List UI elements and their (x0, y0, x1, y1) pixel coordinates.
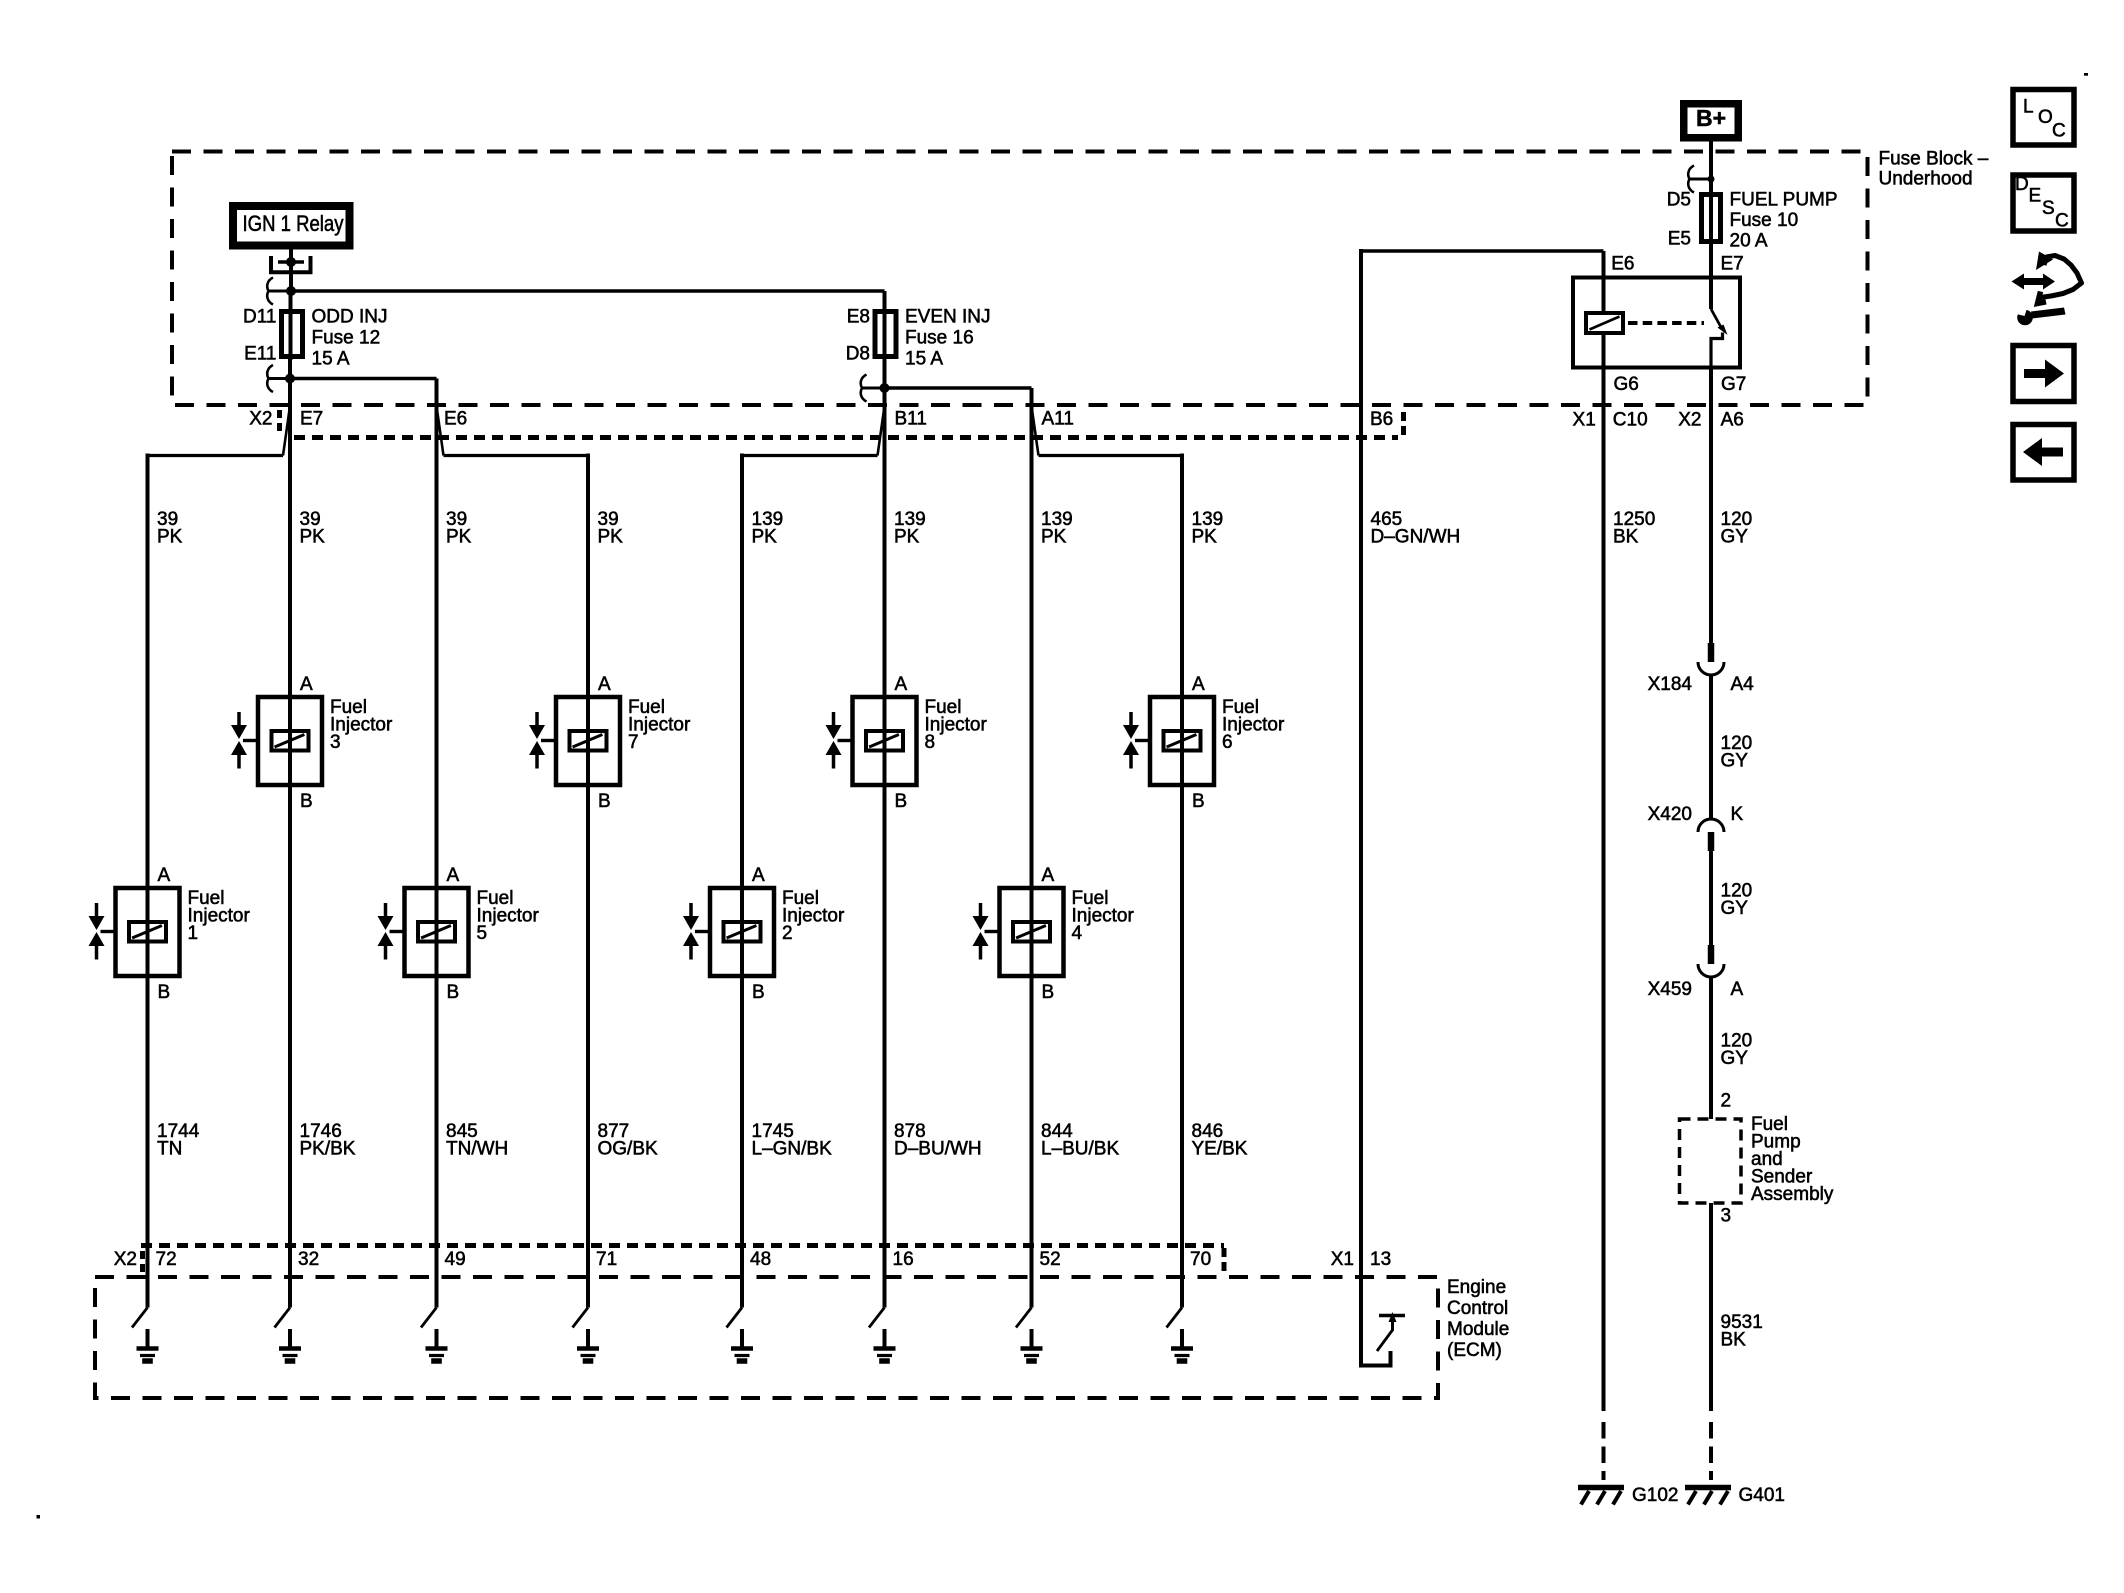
svg-text:X1: X1 (1573, 410, 1596, 431)
back arrow icon (2013, 425, 2074, 481)
svg-text:G102: G102 (1632, 1485, 1678, 1506)
connector repair wrench icon (2012, 252, 2082, 326)
fuel injector 8 (826, 674, 988, 812)
svg-text:Underhood: Underhood (1879, 169, 1973, 190)
svg-text:E6: E6 (1611, 254, 1634, 275)
inline connector X459 A (1698, 945, 1724, 977)
svg-text:5: 5 (477, 923, 488, 944)
svg-text:70: 70 (1190, 1249, 1211, 1270)
wire relay G6 to ground (1250 BK) (1602, 368, 1606, 1412)
wire fuse E11 to junction (288, 359, 292, 379)
svg-text:A: A (1731, 979, 1744, 1000)
wire junction to EVEN INJ fuse (bus) (289, 289, 885, 292)
svg-text:B: B (752, 982, 765, 1003)
fuel injector 1 (89, 865, 251, 1003)
wire fuse D8 to junction (883, 359, 887, 388)
svg-text:FUEL PUMP: FUEL PUMP (1730, 190, 1838, 211)
svg-text:E7: E7 (300, 409, 323, 430)
svg-text:TN: TN (157, 1139, 182, 1160)
svg-text:A: A (447, 865, 460, 886)
fuel injector 6 (1123, 674, 1285, 812)
svg-text:C10: C10 (1613, 410, 1648, 431)
svg-text:GY: GY (1721, 898, 1749, 919)
wire 39 PK injector 5 column (435, 379, 439, 1308)
svg-text:Fuse 16: Fuse 16 (905, 328, 974, 349)
wire 39 PK injector 7 column (586, 454, 590, 1308)
ECM ground driver pin 52 (1016, 1308, 1043, 1362)
fuse ODD INJ Fuse 12 (282, 312, 303, 357)
svg-text:PK: PK (894, 527, 920, 548)
svg-text:6: 6 (1222, 732, 1233, 753)
svg-text:E5: E5 (1668, 229, 1691, 250)
ECM ground driver pin 70 (1167, 1308, 1194, 1362)
svg-text:G6: G6 (1614, 374, 1639, 395)
svg-text:PK: PK (1192, 527, 1218, 548)
svg-text:BK: BK (1721, 1330, 1747, 1351)
svg-text:3: 3 (1721, 1206, 1732, 1227)
svg-text:X184: X184 (1648, 674, 1693, 695)
fuel pump relay box (1573, 278, 1740, 368)
svg-text:A6: A6 (1721, 410, 1744, 431)
wire 139 PK injector 4 column (1030, 388, 1034, 1308)
svg-text:B: B (895, 791, 908, 812)
svg-text:A: A (158, 865, 171, 886)
wire relay G7 to X184 (120 GY) (1709, 368, 1713, 644)
wire 39 PK injector 3 column (288, 379, 292, 1308)
fuse cavity terminal D5 (1690, 178, 1711, 181)
wire E11 junction to E6 branch (290, 377, 437, 380)
relay actuation dashed link (1628, 321, 1704, 325)
svg-text:X2: X2 (249, 409, 272, 430)
fuel injector 5 (378, 865, 540, 1003)
wire 39 PK injector 1 column (146, 454, 150, 1308)
svg-text:16: 16 (893, 1249, 914, 1270)
svg-text:20 A: 20 A (1730, 231, 1768, 252)
svg-text:E11: E11 (244, 344, 276, 365)
wire 465 D-GN/WH ECM 13 column (1359, 249, 1363, 1368)
svg-text:C: C (2055, 211, 2069, 232)
svg-text:PK: PK (157, 527, 183, 548)
svg-text:A: A (598, 674, 611, 695)
svg-text:GY: GY (1721, 1048, 1749, 1069)
svg-text:PK: PK (752, 527, 778, 548)
wire X420 to X459 (1709, 849, 1713, 945)
stray mark top right (2084, 73, 2088, 76)
pin tail E6 (437, 406, 444, 456)
pin tail B11 (878, 406, 885, 456)
svg-text:B+: B+ (1696, 105, 1726, 131)
svg-text:Assembly: Assembly (1751, 1184, 1834, 1205)
pin tail E7 (283, 406, 290, 456)
wire branch to injector 2 column (742, 454, 878, 457)
junction node ODD INJ feed (286, 286, 296, 296)
fuel injector 2 (683, 865, 845, 1003)
ECM ground driver pin 72 (132, 1308, 159, 1362)
svg-text:BK: BK (1613, 527, 1639, 548)
svg-text:GY: GY (1721, 751, 1749, 772)
svg-text:YE/BK: YE/BK (1192, 1139, 1248, 1160)
svg-text:G401: G401 (1739, 1485, 1785, 1506)
ECM ground driver pin 16 (869, 1308, 896, 1362)
fuel pump and sender assembly dashed box (1680, 1119, 1742, 1203)
wire branch to injector 6 column (1039, 454, 1183, 457)
wire fuel pump to ground (9531 BK) (1709, 1203, 1713, 1411)
svg-text:IGN 1 Relay: IGN 1 Relay (243, 211, 344, 236)
svg-text:D: D (2015, 174, 2029, 195)
svg-text:L–GN/BK: L–GN/BK (752, 1139, 833, 1160)
svg-text:B: B (598, 791, 611, 812)
svg-text:B: B (158, 982, 171, 1003)
svg-text:O: O (2038, 107, 2053, 128)
svg-text:2: 2 (1721, 1091, 1732, 1112)
IGN 1 Relay box (233, 206, 350, 246)
wire 139 PK injector 6 column (1180, 454, 1184, 1308)
engine control module dashed box (95, 1277, 1438, 1398)
ECM ground driver pin 48 (727, 1308, 754, 1362)
ground G401 (1685, 1488, 1731, 1505)
svg-text:Fuse 10: Fuse 10 (1730, 210, 1799, 231)
svg-text:B: B (1042, 982, 1055, 1003)
svg-text:Engine: Engine (1447, 1277, 1506, 1298)
wire ECM 13 to relay coil (465 riser top) (1361, 249, 1604, 252)
svg-text:L: L (2023, 97, 2034, 118)
junction node D8 (880, 383, 890, 393)
IGN 1 relay receptacle terminal (271, 256, 311, 272)
svg-text:A: A (1042, 865, 1055, 886)
wire branch to injector 7 column (444, 454, 589, 457)
wire D8 junction to A11 branch (885, 386, 1032, 389)
ECM connector X2 tick (140, 1251, 145, 1274)
svg-text:EVEN INJ: EVEN INJ (905, 307, 991, 328)
svg-text:X2: X2 (114, 1249, 137, 1270)
svg-text:PK: PK (598, 527, 624, 548)
svg-text:2: 2 (782, 923, 793, 944)
ECM ground driver pin 49 (421, 1308, 448, 1362)
svg-text:32: 32 (298, 1249, 319, 1270)
svg-text:A4: A4 (1731, 674, 1755, 695)
svg-text:K: K (1731, 804, 1744, 825)
svg-text:Module: Module (1447, 1319, 1509, 1340)
fuse cavity bracket D8 (862, 387, 885, 390)
svg-text:B6: B6 (1370, 409, 1393, 430)
inline connector X184 A4 (1698, 643, 1724, 675)
svg-text:13: 13 (1370, 1249, 1391, 1270)
svg-text:A: A (895, 674, 908, 695)
svg-text:B: B (447, 982, 460, 1003)
svg-text:A11: A11 (1042, 409, 1074, 430)
svg-text:D8: D8 (846, 344, 870, 365)
wire fuse E5 to relay E7 (1709, 244, 1713, 278)
svg-text:E: E (2029, 186, 2042, 207)
relay coil (1602, 278, 1606, 314)
svg-text:49: 49 (445, 1249, 466, 1270)
ECM driver pin 13 (1361, 1312, 1405, 1366)
svg-text:PK: PK (1041, 527, 1067, 548)
svg-text:B: B (1192, 791, 1205, 812)
svg-text:D–BU/WH: D–BU/WH (894, 1139, 982, 1160)
svg-text:TN/WH: TN/WH (446, 1139, 508, 1160)
fuse EVEN INJ Fuse 16 (883, 291, 887, 360)
stray mark bottom left (37, 1515, 41, 1519)
svg-text:52: 52 (1040, 1249, 1061, 1270)
svg-text:(ECM): (ECM) (1447, 1340, 1502, 1361)
connector X2 end tick at B6 (1401, 412, 1406, 438)
svg-text:4: 4 (1072, 923, 1083, 944)
svg-text:G7: G7 (1721, 374, 1746, 395)
wire branch to injector 1 column (148, 454, 284, 457)
svg-text:PK/BK: PK/BK (300, 1139, 356, 1160)
wire X459 to fuel pump (1709, 977, 1713, 1119)
svg-text:X2: X2 (1678, 410, 1701, 431)
forward arrow icon (2013, 346, 2074, 402)
svg-text:7: 7 (628, 732, 639, 753)
svg-text:GY: GY (1721, 527, 1749, 548)
svg-text:1: 1 (188, 923, 199, 944)
svg-text:71: 71 (596, 1249, 617, 1270)
junction node E11 (285, 374, 295, 384)
svg-text:X459: X459 (1648, 979, 1692, 1000)
svg-text:A: A (1192, 674, 1205, 695)
svg-text:ODD INJ: ODD INJ (312, 307, 388, 328)
connector X2 dotted line (294, 435, 1398, 440)
fuse FUEL PUMP Fuse 10 (1702, 195, 1721, 242)
svg-text:OG/BK: OG/BK (598, 1139, 659, 1160)
fuse cavity bracket E11 (268, 377, 290, 380)
svg-text:Control: Control (1447, 1298, 1508, 1319)
wire 139 PK injector 8 column (883, 388, 887, 1308)
fuse cavity bracket D11 (268, 290, 289, 293)
wire B+ to fuel pump fuse (1709, 142, 1713, 243)
pin tail A11 (1032, 406, 1039, 456)
svg-text:PK: PK (446, 527, 472, 548)
DESC navigation icon (2013, 174, 2074, 232)
ECM ground driver pin 32 (275, 1308, 302, 1362)
svg-text:3: 3 (330, 732, 341, 753)
svg-text:D5: D5 (1667, 190, 1691, 211)
svg-text:X420: X420 (1648, 804, 1692, 825)
svg-text:48: 48 (750, 1249, 771, 1270)
svg-text:L–BU/BK: L–BU/BK (1041, 1139, 1119, 1160)
wire junction to fuse D11 (289, 291, 293, 360)
svg-text:15 A: 15 A (312, 349, 350, 370)
B+ battery terminal box (1684, 104, 1739, 138)
svg-text:A: A (300, 674, 313, 695)
svg-text:D–GN/WH: D–GN/WH (1371, 527, 1461, 548)
svg-text:B: B (300, 791, 313, 812)
svg-text:X1: X1 (1331, 1249, 1354, 1270)
svg-text:S: S (2042, 198, 2055, 219)
wire 139 PK injector 2 column (740, 454, 744, 1308)
inline connector X420 K (1698, 819, 1724, 851)
LOC navigation icon (2013, 90, 2074, 146)
fuel injector 4 (973, 865, 1135, 1003)
ECM ground driver pin 71 (573, 1308, 600, 1362)
fuel injector 7 (529, 674, 691, 812)
relay switch (1709, 278, 1713, 310)
ECM connector end tick (1222, 1248, 1227, 1276)
svg-text:E7: E7 (1721, 254, 1744, 275)
wire X184 to X420 (1709, 675, 1713, 819)
svg-text:E6: E6 (444, 409, 467, 430)
svg-text:C: C (2052, 121, 2066, 142)
svg-text:72: 72 (156, 1249, 177, 1270)
svg-text:Fuse 12: Fuse 12 (312, 328, 381, 349)
svg-text:E8: E8 (847, 307, 870, 328)
fuse block underhood dashed box (172, 152, 1868, 406)
ground G102 (1578, 1488, 1624, 1505)
svg-text:B11: B11 (895, 409, 927, 430)
wire IGN 1 relay to junction (289, 246, 293, 292)
fuel injector 3 (231, 674, 393, 812)
svg-text:A: A (752, 865, 765, 886)
svg-text:PK: PK (300, 527, 326, 548)
ECM connector dotted line (141, 1243, 1224, 1248)
svg-text:D11: D11 (243, 307, 276, 328)
svg-text:8: 8 (925, 732, 936, 753)
svg-text:Fuse Block –: Fuse Block – (1879, 149, 1989, 170)
connector X2 start tick (277, 410, 282, 433)
svg-text:15 A: 15 A (905, 349, 943, 370)
